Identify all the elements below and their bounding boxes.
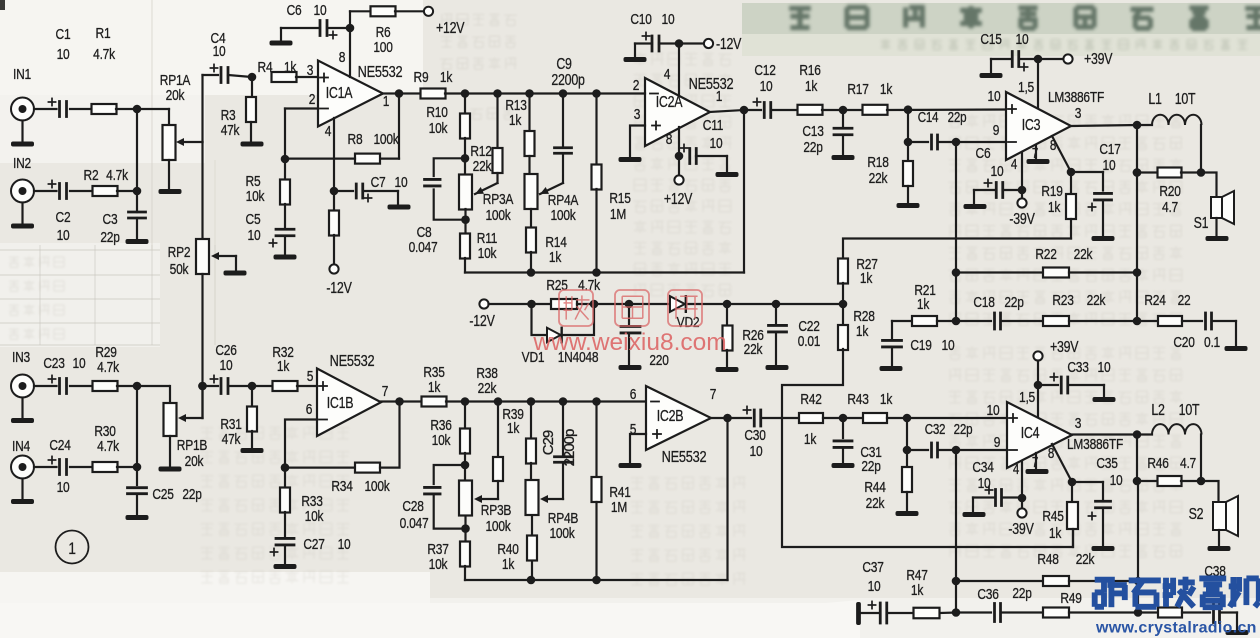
svg-text:22p: 22p [1012, 585, 1031, 602]
svg-text:+39V: +39V [1050, 338, 1079, 356]
svg-text:R24: R24 [1144, 292, 1166, 309]
svg-text:RP1B: RP1B [177, 437, 208, 454]
svg-text:22k: 22k [744, 341, 763, 358]
svg-text:1: 1 [383, 93, 389, 110]
svg-text:6: 6 [306, 401, 312, 418]
svg-text:L2: L2 [1151, 401, 1165, 419]
svg-text:1k: 1k [549, 249, 562, 266]
svg-text:1k: 1k [502, 556, 515, 573]
svg-text:C34: C34 [972, 459, 994, 476]
svg-text:1k: 1k [880, 391, 893, 408]
svg-text:VD2: VD2 [677, 314, 700, 331]
svg-text:R48: R48 [1037, 551, 1058, 568]
svg-text:10: 10 [220, 357, 233, 374]
svg-text:22: 22 [1178, 292, 1191, 309]
svg-text:R46: R46 [1147, 455, 1168, 472]
svg-text:10: 10 [395, 174, 408, 191]
svg-text:4: 4 [1011, 156, 1017, 173]
svg-text:C10: C10 [630, 11, 652, 28]
svg-text:10: 10 [1110, 472, 1123, 489]
svg-text:4: 4 [664, 66, 671, 83]
svg-text:S1: S1 [1194, 214, 1209, 232]
svg-text:10: 10 [991, 163, 1004, 180]
svg-text:10k: 10k [429, 120, 448, 137]
svg-text:R9: R9 [414, 69, 429, 86]
svg-text:R44: R44 [864, 479, 886, 496]
svg-text:C2: C2 [56, 209, 71, 226]
svg-text:C6: C6 [287, 2, 302, 19]
svg-text:10: 10 [662, 11, 675, 28]
svg-text:10: 10 [942, 337, 955, 354]
svg-text:10: 10 [314, 2, 327, 19]
svg-text:-39V: -39V [1008, 520, 1034, 538]
svg-text:S2: S2 [1189, 505, 1204, 523]
svg-text:47k: 47k [221, 122, 240, 139]
svg-text:1k: 1k [1049, 525, 1062, 542]
svg-text:10: 10 [57, 46, 70, 63]
svg-text:22k: 22k [1076, 551, 1095, 568]
svg-text:IC2B: IC2B [657, 407, 684, 425]
svg-text:22k: 22k [869, 170, 888, 187]
svg-text:22k: 22k [473, 158, 492, 175]
svg-text:1k: 1k [804, 431, 817, 448]
svg-text:-12V: -12V [469, 312, 495, 330]
svg-text:IN4: IN4 [12, 438, 31, 455]
svg-text:10: 10 [710, 135, 723, 152]
svg-text:LM3886TF: LM3886TF [1048, 89, 1104, 106]
svg-text:IC1B: IC1B [327, 394, 354, 412]
svg-text:22k: 22k [1087, 292, 1106, 309]
svg-text:1k: 1k [911, 582, 924, 599]
svg-text:50k: 50k [170, 261, 189, 278]
svg-text:R2: R2 [84, 167, 99, 184]
svg-text:100: 100 [373, 39, 393, 56]
svg-text:10T: 10T [1179, 401, 1200, 419]
svg-text:3: 3 [1075, 105, 1081, 122]
svg-text:10: 10 [978, 475, 991, 492]
svg-text:10k: 10k [432, 432, 451, 449]
svg-text:1k: 1k [284, 59, 297, 76]
svg-text:NE5532: NE5532 [330, 353, 375, 371]
svg-text:C1: C1 [56, 26, 71, 43]
svg-text:IC4: IC4 [1021, 424, 1040, 442]
svg-text:5: 5 [307, 368, 313, 385]
svg-text:10T: 10T [1175, 90, 1196, 108]
svg-text:9: 9 [994, 434, 1000, 451]
svg-text:3: 3 [307, 62, 313, 79]
svg-text:1k: 1k [1048, 199, 1061, 216]
svg-text:1,5: 1,5 [1018, 79, 1034, 96]
svg-text:www.crystalradio.cn: www.crystalradio.cn [1095, 620, 1257, 637]
svg-text:100k: 100k [485, 207, 510, 224]
svg-text:4.7k: 4.7k [106, 167, 128, 184]
svg-text:22p: 22p [1004, 294, 1023, 311]
svg-text:R10: R10 [426, 104, 448, 121]
svg-text:C12: C12 [754, 62, 775, 79]
svg-text:20k: 20k [166, 87, 185, 104]
svg-text:NE5532: NE5532 [662, 449, 707, 467]
svg-text:10: 10 [750, 443, 763, 460]
svg-text:IC3: IC3 [1022, 116, 1041, 134]
svg-text:C11: C11 [703, 117, 723, 134]
svg-text:4: 4 [1013, 461, 1019, 478]
svg-text:0.01: 0.01 [798, 333, 820, 350]
svg-text:0.047: 0.047 [400, 515, 429, 532]
svg-text:C6: C6 [976, 145, 991, 162]
svg-text:2200p: 2200p [561, 429, 578, 466]
svg-text:R18: R18 [867, 154, 888, 171]
svg-text:R34: R34 [331, 478, 353, 495]
svg-text:C33: C33 [1067, 359, 1088, 376]
svg-text:4.7k: 4.7k [97, 359, 119, 376]
svg-text:10: 10 [213, 43, 226, 60]
svg-text:1: 1 [68, 540, 75, 559]
svg-text:4: 4 [325, 123, 332, 140]
svg-text:10: 10 [57, 479, 70, 496]
svg-text:1k: 1k [440, 69, 453, 86]
svg-text:C25: C25 [152, 486, 173, 503]
svg-text:7: 7 [382, 383, 388, 400]
svg-text:10k: 10k [478, 245, 497, 262]
svg-text:www.weixiu8.com: www.weixiu8.com [532, 329, 726, 356]
svg-text:1M: 1M [610, 206, 626, 223]
svg-text:R22: R22 [1035, 246, 1056, 263]
svg-text:C18: C18 [973, 294, 994, 311]
svg-text:100k: 100k [364, 478, 389, 495]
svg-text:10k: 10k [246, 188, 265, 205]
svg-text:IN1: IN1 [13, 66, 31, 83]
svg-text:10: 10 [988, 88, 1001, 105]
svg-text:C5: C5 [246, 211, 261, 228]
svg-text:8: 8 [666, 131, 672, 148]
svg-text:RP3A: RP3A [483, 191, 514, 208]
svg-text:LM3886TF: LM3886TF [1067, 436, 1123, 453]
svg-text:20k: 20k [185, 453, 204, 470]
svg-text:22k: 22k [478, 380, 497, 397]
svg-text:C27: C27 [303, 536, 324, 553]
svg-text:IC1A: IC1A [326, 84, 353, 102]
svg-text:IN2: IN2 [13, 155, 31, 172]
svg-text:22p: 22p [861, 458, 880, 475]
svg-text:1k: 1k [880, 81, 893, 98]
svg-text:C35: C35 [1096, 455, 1117, 472]
svg-text:R45: R45 [1042, 508, 1063, 525]
svg-text:10: 10 [1103, 157, 1116, 174]
svg-text:C36: C36 [977, 586, 998, 603]
svg-text:1k: 1k [507, 420, 520, 437]
svg-text:NE5532: NE5532 [358, 64, 403, 82]
svg-text:1k: 1k [860, 270, 873, 287]
svg-text:R16: R16 [799, 62, 820, 79]
svg-text:-12V: -12V [716, 35, 742, 53]
svg-text:-12V: -12V [326, 279, 352, 297]
svg-text:1k: 1k [509, 112, 522, 129]
svg-text:R49: R49 [1060, 590, 1081, 607]
svg-text:C15: C15 [980, 31, 1001, 48]
svg-text:R42: R42 [800, 391, 821, 408]
svg-text:C20: C20 [1173, 334, 1195, 351]
svg-text:22k: 22k [1074, 246, 1093, 263]
svg-text:8: 8 [339, 49, 345, 66]
svg-text:10k: 10k [429, 556, 448, 573]
svg-text:2200p: 2200p [551, 71, 585, 89]
svg-text:RP3B: RP3B [481, 502, 512, 519]
svg-text:4.7k: 4.7k [93, 46, 115, 63]
svg-text:0.047: 0.047 [409, 239, 438, 256]
svg-text:R19: R19 [1041, 183, 1062, 200]
svg-text:2: 2 [309, 91, 315, 108]
svg-text:C29: C29 [540, 430, 557, 455]
svg-text:+39V: +39V [1084, 50, 1113, 68]
svg-text:100k: 100k [549, 525, 574, 542]
svg-text:22p: 22p [948, 109, 967, 126]
svg-text:R15: R15 [609, 190, 630, 207]
svg-text:100k: 100k [485, 518, 510, 535]
svg-text:6: 6 [630, 386, 636, 403]
svg-text:10: 10 [1098, 359, 1111, 376]
svg-text:R8: R8 [348, 131, 363, 148]
svg-text:1k: 1k [277, 358, 290, 375]
svg-text:10: 10 [248, 227, 261, 244]
svg-text:C13: C13 [802, 123, 823, 140]
svg-text:3: 3 [1075, 415, 1081, 432]
svg-text:NE5532: NE5532 [689, 76, 734, 94]
svg-text:R20: R20 [1159, 183, 1181, 200]
svg-text:1k: 1k [917, 296, 930, 313]
svg-text:22p: 22p [182, 486, 201, 503]
svg-text:7: 7 [710, 386, 716, 403]
svg-text:IN3: IN3 [12, 349, 30, 366]
svg-text:47k: 47k [222, 431, 241, 448]
svg-text:R17: R17 [847, 81, 868, 98]
svg-text:C23: C23 [43, 355, 64, 372]
svg-text:10: 10 [73, 355, 86, 372]
svg-text:+12V: +12V [436, 19, 465, 37]
svg-text:1k: 1k [428, 379, 441, 396]
svg-text:4.7k: 4.7k [97, 438, 119, 455]
svg-text:10: 10 [57, 227, 70, 244]
svg-text:1: 1 [716, 88, 722, 105]
svg-text:22p: 22p [803, 139, 822, 156]
svg-text:10: 10 [1016, 31, 1029, 48]
svg-text:1k: 1k [856, 323, 869, 340]
svg-text:-39V: -39V [1009, 210, 1035, 228]
svg-text:1k: 1k [805, 78, 818, 95]
svg-text:R1: R1 [96, 25, 111, 42]
svg-text:4.7: 4.7 [1162, 199, 1178, 216]
svg-text:22p: 22p [954, 421, 973, 438]
svg-text:R43: R43 [847, 391, 868, 408]
svg-text:RP2: RP2 [168, 244, 191, 261]
svg-text:0.1: 0.1 [1204, 334, 1220, 351]
svg-text:C7: C7 [371, 174, 386, 191]
svg-text:C28: C28 [402, 498, 423, 515]
svg-text:C3: C3 [103, 211, 118, 228]
svg-text:C30: C30 [744, 427, 766, 444]
svg-text:10: 10 [760, 78, 773, 95]
svg-text:+12V: +12V [664, 190, 693, 208]
svg-text:22k: 22k [866, 495, 885, 512]
svg-text:1M: 1M [611, 499, 627, 516]
svg-text:2: 2 [633, 77, 639, 94]
svg-text:3: 3 [634, 106, 640, 123]
svg-text:10k: 10k [305, 508, 324, 525]
svg-text:10: 10 [987, 402, 1000, 419]
svg-text:C24: C24 [49, 437, 71, 454]
svg-text:C14: C14 [918, 109, 939, 126]
svg-text:C19: C19 [910, 337, 931, 354]
svg-text:10: 10 [868, 578, 881, 595]
svg-text:L1: L1 [1148, 90, 1162, 108]
svg-text:1,5: 1,5 [1019, 389, 1035, 406]
svg-text:R23: R23 [1052, 292, 1073, 309]
svg-text:9: 9 [993, 122, 999, 139]
svg-text:100k: 100k [550, 207, 575, 224]
svg-text:C17: C17 [1099, 141, 1120, 158]
svg-text:4.7: 4.7 [1180, 455, 1196, 472]
svg-text:C32: C32 [925, 421, 946, 438]
svg-text:22p: 22p [100, 229, 119, 246]
svg-text:100k: 100k [373, 131, 398, 148]
svg-text:C37: C37 [862, 559, 883, 576]
svg-text:10: 10 [338, 536, 351, 553]
svg-text:R4: R4 [258, 59, 273, 76]
